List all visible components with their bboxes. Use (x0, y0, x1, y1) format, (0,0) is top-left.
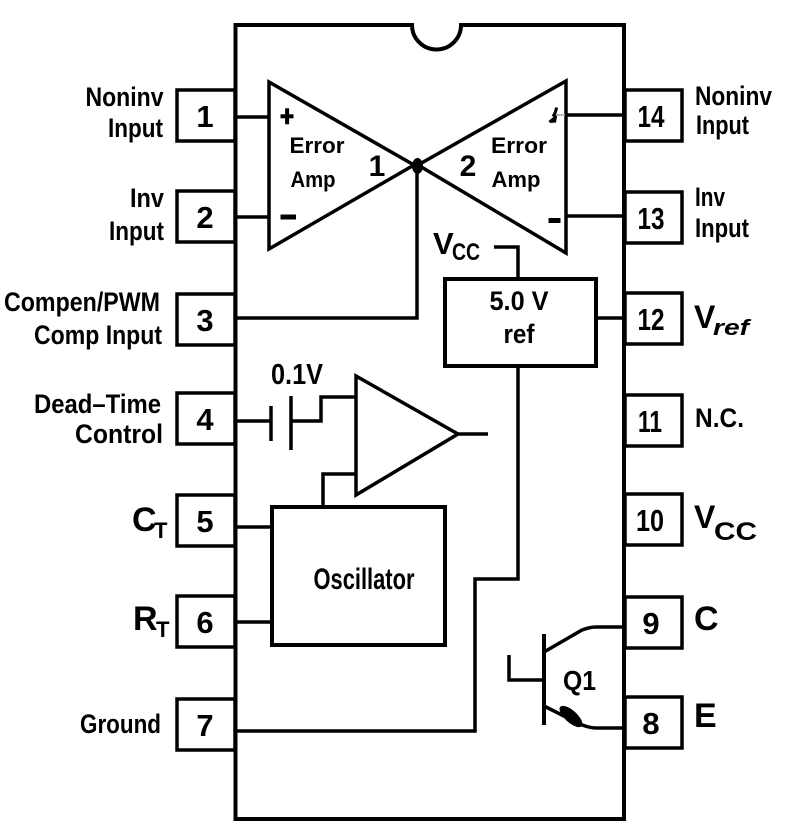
label pin3 Compen/PWM Comp Input (4, 287, 162, 350)
svg-text:Input: Input (695, 213, 749, 243)
svg-text:9: 9 (642, 606, 659, 641)
wire oscillator to comparator - input (323, 474, 356, 507)
wire pin5 to oscillator (237, 525, 272, 529)
svg-text:T: T (154, 518, 168, 543)
svg-text:Error: Error (491, 133, 547, 158)
svg-text:Ground: Ground (80, 709, 161, 739)
wire pin1 to error amp 1 + input (235, 115, 269, 119)
wire pin2 to error amp 1 - input (235, 215, 269, 219)
svg-text:Noninv: Noninv (695, 81, 772, 111)
svg-text:Noninv: Noninv (86, 82, 164, 112)
label pin5 CT (132, 501, 168, 543)
comparator dead-time (356, 376, 458, 495)
wire pin4 to battery (237, 419, 271, 423)
transistor Q1 (509, 627, 625, 731)
regulator 5.0 V ref box (445, 279, 596, 366)
svg-text:C: C (132, 501, 157, 539)
svg-text:Oscillator: Oscillator (314, 563, 415, 596)
svg-text:Inv: Inv (130, 183, 164, 213)
svg-text:Amp: Amp (291, 167, 336, 192)
oscillator box (272, 507, 445, 645)
svg-text:0.1V: 0.1V (271, 359, 324, 391)
svg-text:Input: Input (696, 110, 749, 140)
svg-text:E: E (694, 697, 717, 735)
svg-text:7: 7 (196, 708, 213, 743)
label pin13 Inv Input (695, 182, 749, 243)
svg-text:CC: CC (714, 518, 757, 546)
wire pin14 to error amp 2 + input (566, 113, 625, 117)
svg-text:12: 12 (638, 302, 665, 337)
svg-text:ref: ref (504, 319, 536, 349)
pin box 8 (625, 697, 682, 748)
pin box 4 (177, 393, 235, 444)
svg-text:Comp Input: Comp Input (34, 320, 162, 350)
wire pin6 to oscillator (237, 620, 272, 624)
svg-text:Q1: Q1 (563, 665, 596, 696)
svg-text:N.C.: N.C. (695, 403, 744, 433)
svg-text:Dead–Time: Dead–Time (34, 389, 161, 419)
pin box 13 (625, 192, 682, 243)
label pin2 Inv Input (109, 183, 164, 246)
svg-text:R: R (133, 600, 158, 638)
battery 0.1V offset (271, 396, 291, 450)
svg-text:14: 14 (638, 99, 666, 134)
pin box 7 (177, 699, 235, 750)
svg-text:C: C (694, 600, 719, 638)
pin box 3 (177, 294, 235, 345)
svg-text:6: 6 (196, 605, 213, 640)
svg-text:5.0 V: 5.0 V (490, 286, 549, 316)
svg-text:2: 2 (196, 200, 213, 235)
base lead stub (509, 655, 544, 680)
node feedback junction dot (412, 158, 423, 174)
svg-text:Amp: Amp (492, 167, 541, 192)
svg-text:13: 13 (638, 201, 665, 236)
svg-text:Compen/PWM: Compen/PWM (4, 287, 160, 317)
svg-text:1: 1 (196, 99, 213, 134)
wire VCC to ref box top (494, 247, 518, 279)
svg-text:2: 2 (460, 150, 477, 183)
pin box 11 (625, 395, 682, 446)
label pin10 VCC (694, 499, 757, 546)
wire comparator output (458, 432, 488, 436)
pin box 1 (177, 90, 235, 141)
svg-text:11: 11 (638, 404, 662, 439)
pin box 2 (177, 191, 235, 242)
svg-text:5: 5 (196, 504, 213, 539)
wire pin3 to feedback node (237, 165, 417, 318)
emitter arrowhead (556, 702, 586, 730)
pin box 12 (625, 293, 682, 344)
svg-text:ref: ref (713, 315, 752, 340)
svg-text:10: 10 (636, 503, 664, 538)
wire pin7 ground run to ref return (237, 366, 518, 731)
svg-text:Input: Input (109, 216, 164, 246)
wire battery to comparator + input (291, 397, 356, 421)
label pin12 Vref (694, 299, 752, 340)
pin box 5 (177, 495, 235, 546)
wire ref box to pin12 (596, 316, 625, 320)
pin box 10 (625, 494, 682, 545)
label pin1 Noninv Input (86, 82, 164, 143)
svg-text:Input: Input (108, 113, 163, 143)
svg-text:Inv: Inv (695, 182, 725, 212)
label VCC at ref (433, 226, 480, 266)
svg-text:4: 4 (196, 402, 214, 437)
svg-text:Error: Error (290, 133, 345, 158)
op-amp error amp 2 (418, 81, 566, 253)
base bar (542, 634, 546, 725)
label pin6 RT (133, 600, 170, 642)
label pin4 Dead-Time Control (34, 389, 163, 449)
svg-text:CC: CC (452, 239, 480, 266)
pin box 14 (625, 90, 682, 141)
svg-text:T: T (156, 617, 170, 642)
svg-text:8: 8 (642, 706, 659, 741)
pin box 6 (177, 596, 235, 647)
wire pin13 to error amp 2 - input (566, 214, 625, 218)
op-amp error amp 1 (269, 82, 414, 249)
svg-text:V: V (694, 499, 716, 535)
label pin14 Noninv Input (695, 81, 772, 140)
IC package outline U1 with index notch (236, 25, 625, 819)
svg-text:Control: Control (75, 419, 163, 449)
svg-text:V: V (433, 226, 454, 261)
svg-text:3: 3 (196, 303, 213, 338)
collector lead to pin 9 (544, 627, 625, 652)
pin box 9 (625, 597, 682, 648)
emitter lead with arrow to pin 8 (544, 706, 625, 728)
svg-text:1: 1 (369, 150, 386, 183)
